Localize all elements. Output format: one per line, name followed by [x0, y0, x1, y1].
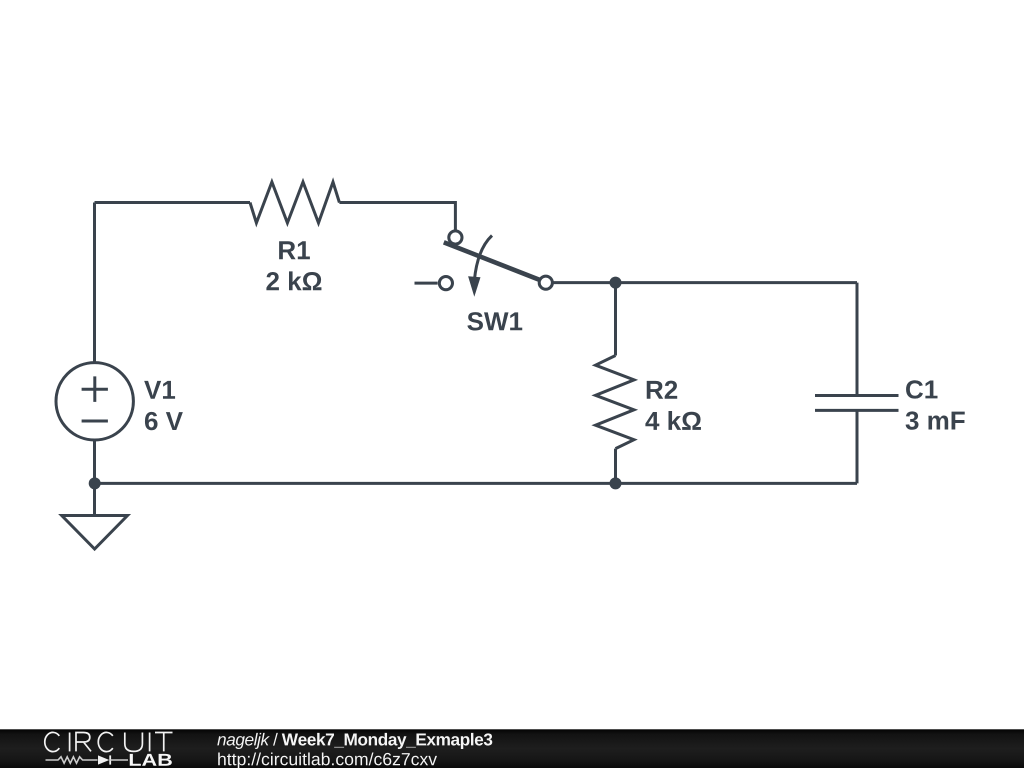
- logo letter C: [98, 732, 113, 751]
- wire bottom rail: [95, 482, 858, 485]
- footer title line text: [217, 733, 492, 749]
- resistor R1: [250, 182, 339, 223]
- logo wire diode to LAB: [110, 759, 128, 761]
- wire rail to ground: [93, 483, 96, 515]
- value label 3 mF text: [906, 411, 965, 429]
- wire V1 bottom to rail: [93, 440, 96, 483]
- logo word LAB text: [130, 754, 172, 766]
- wire R1 right to corner: [339, 201, 455, 204]
- logo letter I: [69, 733, 71, 752]
- switch SW1 left throw terminal circle: [439, 277, 452, 290]
- junction dot at bottom-left (V1/ground): [89, 477, 101, 489]
- capacitor C1 bottom plate: [815, 409, 899, 412]
- logo letter R: [76, 733, 91, 752]
- switch SW1 top terminal circle: [449, 231, 462, 244]
- switch SW1 arrowhead: [468, 276, 480, 297]
- value label 4 kOhm text: [645, 411, 701, 430]
- label SW1 text: [467, 312, 522, 330]
- label V1 text: [144, 381, 175, 399]
- wire left vertical (top-left corner down to V1 circle): [93, 203, 96, 363]
- wire R2 bottom to bottom rail: [614, 449, 617, 484]
- resistor R2: [596, 356, 635, 449]
- switch SW1 actuation arc: [474, 236, 492, 281]
- switch SW1 right (common) terminal circle: [539, 276, 552, 289]
- logo letter T: [155, 733, 173, 752]
- wire C1 top vertical: [856, 283, 859, 395]
- voltage source V1 circle: [56, 363, 133, 440]
- value label 2 kOhm text: [266, 271, 321, 290]
- wire switch common to C1 top (node A horizontal): [554, 281, 858, 284]
- label C1 text: [906, 380, 937, 398]
- junction dot at bottom rail under R2: [610, 477, 622, 489]
- wire top-left horizontal (V1 top to R1 left): [95, 201, 251, 204]
- switch SW1 blade: [444, 242, 542, 280]
- wire corner down to switch top terminal: [454, 201, 457, 230]
- value label 6 V text: [145, 412, 183, 430]
- logo diode bar: [109, 755, 111, 764]
- logo letter C: [45, 732, 60, 751]
- switch SW1: [415, 231, 553, 297]
- logo letter I: [149, 733, 151, 752]
- wire C1 bottom vertical: [856, 411, 859, 483]
- switch SW1 left throw stub wire: [415, 282, 438, 285]
- wire node A down to R2: [614, 283, 617, 356]
- voltage source V1 minus sign: [82, 420, 108, 423]
- label R1 text: [279, 241, 310, 259]
- junction dot at node A (switch/R2/C1): [610, 277, 622, 289]
- footer url line text: [218, 752, 437, 768]
- voltage source V1 plus sign: [82, 376, 108, 402]
- label R2 text: [647, 381, 677, 399]
- logo letter U: [125, 733, 143, 752]
- capacitor C1 top plate: [815, 394, 899, 397]
- logo wire with resistor: [46, 757, 98, 763]
- ground symbol: [62, 516, 128, 550]
- CircuitLab logo word CIRCUIT: [45, 732, 173, 751]
- logo diode triangle: [98, 755, 109, 764]
